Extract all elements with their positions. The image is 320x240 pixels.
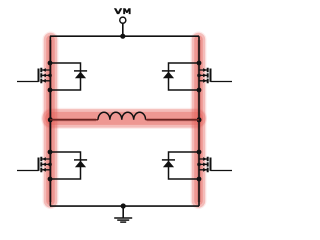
diode D1 triangle: [75, 72, 86, 79]
diode D4 cathode bar: [162, 159, 175, 161]
transistor Q3 channel dashes: [40, 157, 42, 173]
transistor Q2 source junction: [197, 88, 202, 93]
transistor Q4 drain/source/body stubs: [199, 159, 207, 170]
transistor Q3 drain/source/body stubs: [42, 159, 50, 170]
transistor Q4 (low-side right) with body diode D4: [162, 150, 232, 182]
transistor Q1 gate bar: [38, 69, 40, 82]
inductor L1 (motor winding): [98, 112, 146, 120]
wire top rail: [50, 35, 199, 37]
diode D3 triangle: [75, 161, 86, 168]
wire middle bar left: [50, 119, 98, 121]
VM label: [114, 8, 131, 14]
transistor Q3 source junction: [48, 177, 53, 182]
wire bottom rail: [50, 205, 199, 207]
transistor Q1 channel dashes: [40, 68, 42, 84]
highlighted current path: right leg: [191, 40, 207, 202]
node winding right junction: [197, 117, 202, 122]
ground: [114, 218, 132, 222]
transistor Q1 (high-side left) with body diode D1: [17, 61, 87, 93]
wire middle bar right: [146, 119, 199, 121]
wire ground stub: [122, 206, 124, 218]
transistor Q2 drain/source/body stubs: [199, 70, 207, 81]
diode D2 triangle: [163, 72, 174, 79]
transistor Q2 channel dashes: [207, 68, 209, 84]
diode D1 cathode bar: [74, 70, 87, 72]
highlighted current path: middle bar through winding: [52, 108, 197, 129]
transistor Q2 (high-side right) with body diode D2: [162, 61, 232, 93]
transistor Q1 drain/source/body stubs: [42, 70, 50, 81]
diode D3 loop wire: [50, 152, 81, 179]
VM terminal circle: [120, 17, 126, 23]
transistor Q2 gate bar: [210, 69, 212, 82]
node winding left junction: [48, 117, 53, 122]
transistor Q1 source junction: [48, 88, 53, 93]
transistor Q4 gate bar: [210, 158, 212, 171]
transistor Q3 body junction: [48, 163, 52, 167]
transistor Q1 drain junction: [48, 61, 53, 66]
transistor Q3 gate bar: [38, 158, 40, 171]
transistor Q3 gate lead wire: [17, 170, 39, 172]
diode D2 cathode bar: [162, 70, 175, 72]
transistor Q3 drain junction: [48, 150, 53, 155]
wire glow on highlighted path: [50, 40, 199, 202]
highlighted current path: left leg: [43, 40, 59, 202]
diode D4 loop wire: [169, 152, 200, 179]
transistor Q3 (low-side left) with body diode D3: [17, 150, 87, 182]
transistor Q4 body junction: [197, 163, 201, 167]
node VM junction: [120, 34, 125, 39]
wire VM stub: [122, 23, 124, 36]
transistor Q4 source junction: [197, 177, 202, 182]
wire left vertical: [49, 36, 51, 206]
transistor Q2 gate lead wire: [210, 81, 232, 83]
transistor Q4 gate lead wire: [210, 170, 232, 172]
transistor Q2 stub arrows: [203, 68, 207, 72]
transistor Q4 drain junction: [197, 150, 202, 155]
transistor Q1 stub arrows: [42, 68, 46, 72]
transistor Q2 body junction: [197, 74, 201, 78]
transistor Q1 body junction: [48, 74, 52, 78]
node ground junction: [121, 203, 126, 208]
transistor Q1 gate lead wire: [17, 81, 39, 83]
transistor Q4 stub arrows: [203, 157, 207, 161]
transistor Q2 drain junction: [197, 61, 202, 66]
diode D1 loop wire: [50, 63, 81, 90]
wire right vertical: [198, 36, 200, 206]
diode D2 loop wire: [169, 63, 200, 90]
transistor Q4 channel dashes: [207, 157, 209, 173]
diode D4 triangle: [163, 161, 174, 168]
diode D3 cathode bar: [74, 159, 87, 161]
transistor Q3 stub arrows: [42, 157, 46, 161]
